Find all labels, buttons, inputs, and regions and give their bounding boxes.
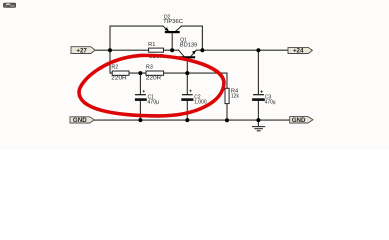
svg-text:12k: 12k bbox=[231, 93, 239, 99]
svg-text:GND: GND bbox=[292, 117, 306, 124]
svg-text:R1: R1 bbox=[148, 42, 155, 48]
svg-text:GND: GND bbox=[73, 117, 87, 124]
svg-text:220R: 220R bbox=[146, 76, 161, 82]
svg-text:TIP36C: TIP36C bbox=[163, 19, 183, 25]
svg-text:1,000: 1,000 bbox=[194, 99, 207, 105]
svg-text:470µ: 470µ bbox=[147, 99, 159, 105]
svg-text:220R: 220R bbox=[111, 76, 126, 82]
svg-text:470µ: 470µ bbox=[265, 100, 277, 106]
svg-text:BD139: BD139 bbox=[180, 43, 197, 49]
svg-text:R3: R3 bbox=[146, 65, 153, 71]
svg-text:+24: +24 bbox=[293, 48, 304, 55]
svg-text:R2: R2 bbox=[111, 65, 118, 71]
svg-text:+27: +27 bbox=[76, 47, 87, 54]
